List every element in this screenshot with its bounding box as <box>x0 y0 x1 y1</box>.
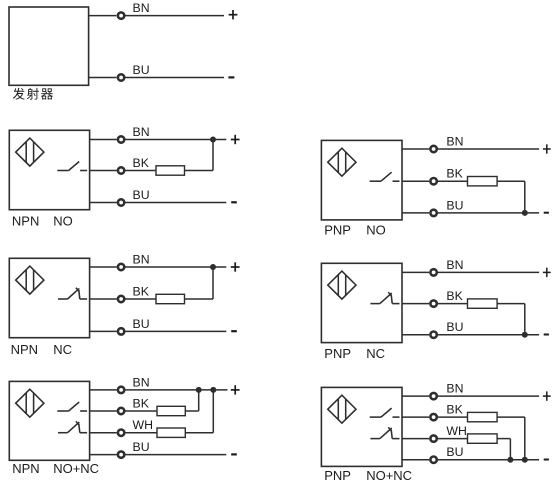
wire elbow down to BU junction <box>524 304 526 335</box>
terminal circle BK <box>118 167 124 173</box>
svg-text:BK: BK <box>446 289 463 303</box>
svg-text:NO+NC: NO+NC <box>366 468 412 483</box>
svg-text:WH: WH <box>133 418 154 432</box>
plus supply <box>231 385 240 394</box>
svg-text:PNP: PNP <box>324 468 351 483</box>
wire WH to resistor <box>438 438 468 440</box>
terminal circle BU <box>430 210 436 216</box>
svg-text:BN: BN <box>446 135 463 149</box>
wire BK lead <box>90 170 117 172</box>
wire BK lead <box>402 180 429 182</box>
svg-text:BU: BU <box>446 320 463 334</box>
wire resistor to elbow <box>497 303 525 305</box>
wire BU lead <box>402 459 429 461</box>
switch NO <box>370 172 400 181</box>
wire BN to junction <box>126 139 214 141</box>
wire BK to resistor <box>126 298 157 300</box>
junction dot BU-BK <box>522 457 528 463</box>
wire WH resistor to elbow <box>497 438 510 440</box>
terminal circle BN <box>118 264 124 270</box>
minus supply <box>231 453 237 455</box>
junction dot BN <box>210 137 216 143</box>
svg-text:BN: BN <box>133 1 150 15</box>
terminal circle BK <box>430 300 436 306</box>
svg-text:NO+NC: NO+NC <box>53 461 99 476</box>
terminal circle BN <box>430 146 436 152</box>
junction dot BU <box>522 210 528 216</box>
wire BN to + <box>438 271 539 273</box>
wire BN lead <box>90 389 117 391</box>
wire BK resistor to elbow <box>185 410 198 412</box>
switch NO <box>57 162 87 171</box>
svg-text:NO: NO <box>366 222 386 237</box>
wire WH lead <box>90 432 117 434</box>
switch NC <box>370 292 399 303</box>
wire elbow down to BU junction <box>524 181 526 213</box>
sensor diamond symbol <box>16 138 44 166</box>
wire BK lead <box>90 298 117 300</box>
resistor load (BK) <box>468 412 498 421</box>
wire BU to - (emitter) <box>125 77 224 79</box>
svg-text:BU: BU <box>446 198 463 212</box>
terminal circle BU <box>118 328 124 334</box>
wire BN to + (emitter) <box>125 15 224 17</box>
junction dot BN <box>210 264 216 270</box>
wire BN to junction <box>126 266 214 268</box>
plus supply (emitter) <box>229 10 238 19</box>
minus supply (emitter) <box>228 76 234 78</box>
junction dot BU <box>522 332 528 338</box>
sensor diamond symbol <box>328 271 356 299</box>
wire WH to resistor <box>126 432 158 434</box>
sensor box NPN NC <box>9 258 89 337</box>
wire BK resistor to elbow <box>497 416 525 418</box>
wire BU lead <box>90 202 117 204</box>
wire BU lead (emitter) <box>89 77 117 79</box>
terminal circle BK <box>430 414 436 420</box>
wire BU to - <box>438 459 539 461</box>
wire BK elbow down to BU <box>524 417 526 460</box>
wire junction to + <box>213 139 226 141</box>
wire WH elbow down to BU <box>509 439 511 460</box>
svg-text:BU: BU <box>446 445 463 459</box>
junction dot BU-WH <box>507 457 513 463</box>
svg-text:NC: NC <box>366 346 385 361</box>
svg-text:BK: BK <box>446 167 463 181</box>
terminal circle BU (emitter) <box>118 74 124 80</box>
plus supply <box>543 268 551 277</box>
wire BU lead <box>90 330 117 332</box>
resistor load (BK) <box>468 177 498 186</box>
terminal circle BN <box>118 387 124 393</box>
plus supply <box>231 135 240 144</box>
sensor box PNP NO <box>321 140 402 220</box>
switch NC <box>58 288 87 299</box>
resistor load (WH) <box>157 428 185 437</box>
svg-text:BN: BN <box>133 375 150 389</box>
switch NC <box>370 427 399 438</box>
svg-text:BN: BN <box>446 258 463 272</box>
wire BK lead <box>90 410 117 412</box>
svg-text:PNP: PNP <box>324 222 351 237</box>
sensor diamond symbol <box>328 148 356 176</box>
wire BU to - <box>126 202 227 204</box>
wire BK to resistor <box>438 303 468 305</box>
sensor diamond symbol <box>16 389 44 417</box>
terminal circle BK <box>118 296 124 302</box>
label 发射器 (emitter caption) <box>13 88 53 100</box>
svg-text:NO: NO <box>53 214 72 229</box>
wire BK to resistor <box>438 416 468 418</box>
terminal circle BU <box>430 457 436 463</box>
svg-text:BK: BK <box>133 397 150 411</box>
svg-text:NPN: NPN <box>12 214 39 229</box>
svg-text:BU: BU <box>133 188 150 202</box>
minus supply <box>544 212 549 214</box>
svg-text:NPN: NPN <box>11 342 38 357</box>
wire WH resistor to elbow <box>185 432 213 434</box>
wire BU lead <box>402 334 429 336</box>
terminal circle WH <box>430 435 436 441</box>
terminal circle BN <box>430 269 436 275</box>
plus supply <box>543 144 551 153</box>
resistor load (BK) <box>157 406 185 415</box>
sensor box NPN NO+NC <box>9 381 89 460</box>
wire BN lead <box>90 139 117 141</box>
terminal circle BU <box>430 332 436 338</box>
wire resistor to elbow <box>497 180 525 182</box>
wire BN lead <box>90 266 117 268</box>
wire BN to + <box>438 148 539 150</box>
wire BU lead <box>90 454 117 456</box>
plus supply <box>543 391 551 400</box>
wire BN lead <box>402 148 429 150</box>
wire resistor to elbow <box>185 298 214 300</box>
wire BU to - <box>126 330 227 332</box>
wire elbow up to BN junction <box>212 140 214 171</box>
wire junction to + <box>213 266 226 268</box>
terminal circle BN <box>430 393 436 399</box>
sensor box PNP NC <box>321 263 402 342</box>
resistor load (WH) <box>468 434 498 443</box>
svg-text:PNP: PNP <box>324 346 351 361</box>
wire resistor to elbow <box>185 170 214 172</box>
minus supply <box>544 459 549 461</box>
minus supply <box>231 330 237 332</box>
wire BK elbow up to BN <box>198 390 200 411</box>
svg-text:BK: BK <box>133 156 150 170</box>
terminal circle BK <box>430 178 436 184</box>
svg-text:BK: BK <box>446 403 463 417</box>
wire WH elbow up to BN <box>212 390 214 433</box>
svg-text:BN: BN <box>133 125 150 139</box>
sensor box NPN NO <box>9 130 89 209</box>
wire BN lead <box>402 395 429 397</box>
svg-text:BU: BU <box>133 63 150 77</box>
switch NO <box>57 402 87 411</box>
minus supply <box>544 334 549 336</box>
sensor box PNP NO+NC <box>321 387 402 466</box>
wire elbow up to BN junction <box>212 267 214 299</box>
minus supply <box>231 201 237 203</box>
svg-text:NC: NC <box>53 342 72 357</box>
terminal circle BU <box>118 199 124 205</box>
wire BU to - <box>438 212 539 214</box>
svg-text:NPN: NPN <box>12 461 39 476</box>
sensor diamond symbol <box>328 395 356 423</box>
wire BK lead <box>402 303 429 305</box>
svg-text:BU: BU <box>133 317 150 331</box>
wire BN to junctions <box>126 389 228 391</box>
switch NC <box>58 421 87 432</box>
switch NO <box>370 408 400 417</box>
wire BN lead (emitter) <box>89 15 117 17</box>
terminal circle BN <box>118 136 124 142</box>
wire BK to resistor <box>126 410 158 412</box>
resistor load (BK) <box>156 294 185 303</box>
wire BK to resistor <box>438 180 468 182</box>
wire BK to resistor <box>126 170 157 172</box>
terminal circle WH <box>118 430 124 436</box>
junction dot BN-BK <box>196 387 202 393</box>
plus supply <box>231 262 240 271</box>
wire BU to - <box>126 454 227 456</box>
terminal circle BK <box>118 408 124 414</box>
resistor load (BK) <box>468 299 498 308</box>
wire BU lead <box>402 212 429 214</box>
wire BK lead <box>402 416 429 418</box>
emitter box 发射器 <box>9 7 89 85</box>
wire BN lead <box>402 271 429 273</box>
wire BU to - <box>438 334 539 336</box>
terminal circle BU <box>118 451 124 457</box>
wire BN to + <box>438 395 539 397</box>
svg-text:BU: BU <box>133 440 150 454</box>
wire WH lead <box>402 438 429 440</box>
sensor diamond symbol <box>16 266 44 294</box>
svg-text:BN: BN <box>133 253 150 267</box>
svg-text:BN: BN <box>446 382 463 396</box>
svg-text:BK: BK <box>133 285 150 299</box>
terminal circle BN (emitter) <box>118 12 124 18</box>
resistor load (BK) <box>156 166 185 175</box>
junction dot BN-WH <box>210 387 216 393</box>
svg-text:WH: WH <box>446 424 467 438</box>
